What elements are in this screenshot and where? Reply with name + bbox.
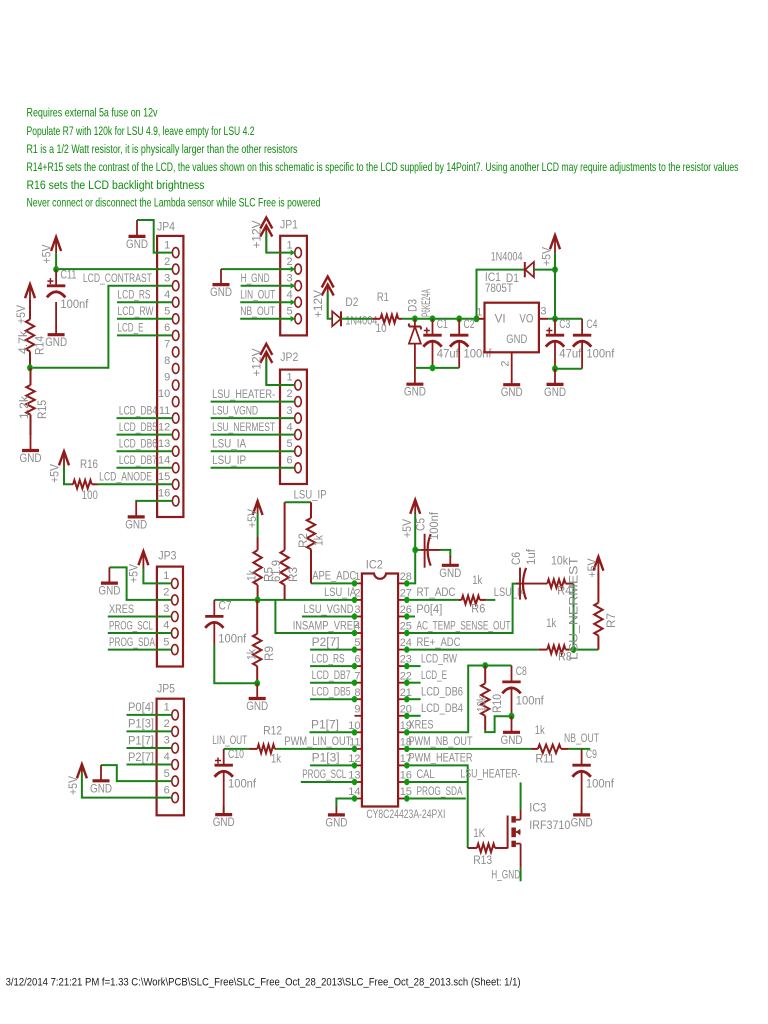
ground at JP3 pin2 bbox=[98, 567, 120, 597]
svg-text:13: 13 bbox=[158, 438, 170, 450]
junction IC2 pin11 bbox=[352, 746, 357, 752]
svg-text:5: 5 bbox=[163, 636, 169, 648]
net label PROG_SDA IC2r bbox=[417, 784, 464, 798]
svg-text:11: 11 bbox=[159, 405, 170, 417]
svg-text:GND: GND bbox=[544, 385, 566, 399]
svg-text:P0[4]: P0[4] bbox=[416, 602, 442, 616]
net label LCD_DB7 IC2 bbox=[312, 668, 351, 682]
capacitor C1 47uf bbox=[423, 317, 459, 368]
wire R4 down to LSU_NERMEST node bbox=[573, 584, 575, 650]
R13 name bbox=[473, 853, 492, 867]
net label LCD_RS bbox=[118, 288, 151, 302]
svg-text:R16 sets the LCD backlight bri: R16 sets the LCD backlight brightness bbox=[27, 178, 205, 192]
net label PROG_SCL IC2 bbox=[302, 767, 346, 781]
junction D1/+5V bbox=[552, 266, 558, 273]
svg-text:3: 3 bbox=[164, 735, 170, 747]
svg-text:GND: GND bbox=[501, 733, 523, 747]
svg-text:1k: 1k bbox=[472, 573, 483, 587]
svg-text:LSU_IP: LSU_IP bbox=[294, 488, 327, 502]
junction IC2 pin15 bbox=[404, 795, 409, 801]
svg-text:LCD_RW: LCD_RW bbox=[118, 304, 154, 318]
R12 value 1k bbox=[271, 751, 282, 765]
wire D1 to +5V junction bbox=[534, 269, 555, 271]
net label LSU_NERMEST bbox=[566, 556, 580, 660]
svg-text:VO: VO bbox=[519, 311, 533, 325]
footer plot info text bbox=[6, 977, 521, 989]
svg-text:LCD_DB7: LCD_DB7 bbox=[119, 453, 157, 467]
svg-text:1uf: 1uf bbox=[524, 548, 538, 565]
R4 value 10k bbox=[551, 554, 569, 568]
svg-text:R13: R13 bbox=[473, 853, 492, 867]
svg-text:1: 1 bbox=[164, 239, 170, 251]
svg-text:6: 6 bbox=[164, 784, 170, 796]
wire LCD_DB4 IC2r bbox=[407, 715, 421, 717]
svg-text:GND: GND bbox=[210, 285, 232, 299]
svg-text:LIN_OUT: LIN_OUT bbox=[240, 288, 275, 302]
junction IC2 pin25 bbox=[404, 630, 409, 636]
wire LCD_DB6 bbox=[117, 450, 173, 452]
junction IC2 pin28 bbox=[404, 580, 409, 586]
R9 name bbox=[262, 646, 276, 661]
arrow JP1 pin1 bbox=[291, 250, 295, 256]
svg-text:+5V: +5V bbox=[540, 246, 554, 266]
svg-text:3: 3 bbox=[164, 272, 170, 284]
net label NB_OUT right bbox=[564, 731, 599, 745]
wire LCD_E bbox=[117, 334, 172, 336]
svg-text:10k: 10k bbox=[475, 695, 489, 712]
wire P0[4] IC2r bbox=[407, 616, 415, 618]
net label P1[3] JP5 bbox=[128, 717, 154, 731]
svg-text:GND: GND bbox=[571, 815, 593, 829]
svg-text:1k: 1k bbox=[245, 648, 259, 660]
junction IC2 pin12 bbox=[352, 762, 357, 768]
svg-text:+5V: +5V bbox=[127, 563, 141, 583]
svg-text:LCD_DB7: LCD_DB7 bbox=[312, 668, 351, 682]
net label P2[7] JP5 bbox=[128, 750, 154, 764]
junction IC2 pin26 bbox=[404, 613, 409, 619]
svg-text:GND: GND bbox=[246, 699, 268, 713]
wire LSU_VGND JP2 bbox=[211, 417, 295, 419]
supply +5V at R14 bbox=[25, 284, 35, 300]
C6 value 1uf bbox=[524, 548, 538, 565]
net label CAL IC2r bbox=[417, 767, 435, 781]
wire +5V to C5 junction bbox=[414, 514, 416, 550]
svg-text:CY8C24423A-24PXI: CY8C24423A-24PXI bbox=[366, 807, 445, 821]
svg-text:P2[7]: P2[7] bbox=[312, 635, 340, 649]
wire RE+_ADC bbox=[407, 649, 539, 651]
voltage regulator IC1 7805T bbox=[476, 303, 548, 369]
svg-text:GND: GND bbox=[439, 566, 461, 580]
svg-text:LSU_VGND: LSU_VGND bbox=[304, 602, 354, 616]
resistor R3 61.9 bbox=[280, 502, 288, 600]
capacitor C7 100nf bbox=[205, 599, 247, 646]
supply +5V at R7 text bbox=[585, 558, 599, 578]
svg-text:LSU_IA: LSU_IA bbox=[212, 437, 247, 451]
net label PWM_NB_OUT bbox=[409, 734, 473, 748]
junction R10 top bbox=[482, 662, 488, 669]
svg-text:10: 10 bbox=[158, 388, 170, 400]
svg-text:5: 5 bbox=[286, 306, 292, 318]
svg-text:LSU_IA: LSU_IA bbox=[324, 585, 357, 599]
IC U2 CY8C24423A-24PXI body bbox=[348, 571, 412, 807]
ground below IC1 bbox=[501, 369, 523, 400]
wire P1[3] IC2 pin12 bbox=[310, 764, 354, 766]
capacitor C8 100nf bbox=[502, 664, 544, 716]
wire source to H_GND bbox=[520, 868, 522, 881]
junction IC2 pin13 bbox=[352, 779, 357, 785]
net label LCD_DB4 IC2r bbox=[421, 701, 463, 715]
supply +5V at C5 bbox=[410, 500, 420, 514]
net label PROG_SDA JP3 bbox=[109, 635, 156, 649]
svg-text:LCD_ANODE: LCD_ANODE bbox=[99, 470, 152, 484]
net label XRES JP3 bbox=[109, 602, 134, 616]
net label NB_OUT bbox=[240, 304, 275, 318]
wire P0[4] JP5 bbox=[127, 714, 172, 716]
junction IC2 pin7 bbox=[352, 680, 357, 686]
IC1 value 7805T bbox=[485, 281, 513, 295]
wire IC2 pin28 to +5V bbox=[407, 550, 415, 584]
wire +5V to JP5 pin6 bbox=[82, 773, 172, 798]
supply +5V at JP3 text bbox=[127, 563, 141, 583]
ground at IC2 pin14 bbox=[325, 807, 347, 829]
net label RT_ADC bbox=[417, 585, 456, 599]
svg-text:4: 4 bbox=[164, 289, 170, 301]
wire LCD_E IC2r bbox=[407, 682, 421, 684]
junction C3 bottom bbox=[552, 365, 558, 372]
supply +12V at JP2 text bbox=[249, 348, 263, 377]
D1 name bbox=[506, 271, 519, 285]
R1 name bbox=[377, 290, 389, 304]
svg-text:+5V: +5V bbox=[48, 463, 62, 483]
net label LSU_HEATER- bbox=[212, 387, 275, 401]
arrow JP1 pin5 bbox=[291, 316, 295, 322]
resistor R9 1k bbox=[253, 600, 261, 683]
resistor R16 100 bbox=[71, 480, 98, 488]
wire LSU_VGND IC2 pin3 bbox=[302, 616, 355, 618]
diode D2 1N4004 bbox=[332, 311, 341, 326]
svg-text:P6KE24A: P6KE24A bbox=[419, 289, 433, 317]
svg-text:1k: 1k bbox=[245, 569, 259, 581]
svg-text:16: 16 bbox=[158, 488, 170, 500]
svg-text:P1[3]: P1[3] bbox=[312, 751, 340, 765]
svg-text:6: 6 bbox=[164, 322, 170, 334]
svg-text:100nf: 100nf bbox=[60, 297, 89, 311]
net label H_GND bbox=[241, 271, 270, 285]
net label LCD_DB4 bbox=[119, 403, 157, 417]
R3 value 61.9 bbox=[269, 560, 283, 582]
svg-text:R15: R15 bbox=[35, 400, 49, 419]
svg-text:C6: C6 bbox=[509, 552, 523, 565]
svg-text:Populate R7 with 120k for LSU: Populate R7 with 120k for LSU 4.9, leave… bbox=[27, 124, 255, 138]
junction IC2 pin10 bbox=[352, 729, 357, 735]
wire LCD_RW bbox=[117, 318, 172, 320]
net label LIN_OUT left bbox=[212, 733, 247, 747]
net label P1[7] JP5 bbox=[128, 733, 154, 747]
svg-text:100nf: 100nf bbox=[427, 511, 441, 540]
ground at JP4 pin1 bbox=[126, 220, 148, 251]
svg-text:9: 9 bbox=[354, 703, 360, 715]
capacitor C6 1uf bbox=[516, 568, 547, 600]
svg-text:LCD_DB4: LCD_DB4 bbox=[119, 403, 157, 417]
svg-text:LCD_CONTRAST: LCD_CONTRAST bbox=[83, 271, 152, 285]
R2 name bbox=[296, 533, 310, 548]
arrow JP1 pin2 bbox=[291, 266, 295, 272]
svg-text:C10: C10 bbox=[228, 747, 244, 761]
ground below C3 bbox=[544, 369, 566, 399]
net label LCD_E IC2r bbox=[421, 668, 447, 682]
supply +12V at JP1 text bbox=[249, 220, 263, 249]
net label LCD_ANODE bbox=[99, 470, 152, 484]
junction IC2 pin27 bbox=[404, 597, 409, 603]
svg-text:LCD_RS: LCD_RS bbox=[118, 288, 151, 302]
svg-text:4: 4 bbox=[164, 751, 170, 763]
svg-text:R9: R9 bbox=[262, 646, 276, 661]
net label LCD_DB5 bbox=[119, 420, 157, 434]
capacitor C11 100nf bbox=[47, 268, 89, 312]
resistor R13 1K bbox=[468, 844, 508, 852]
svg-text:LSU_HEATER-: LSU_HEATER- bbox=[212, 387, 275, 401]
wire +5V to JP4 pin2 bbox=[56, 253, 172, 269]
wire IC2 pin14 to GND bbox=[336, 799, 354, 808]
C6 name bbox=[509, 552, 523, 565]
R3 name bbox=[286, 567, 300, 582]
D1 value 1N4004 bbox=[491, 250, 523, 264]
supply +12V at JP1 bbox=[260, 218, 272, 253]
svg-text:100nf: 100nf bbox=[218, 631, 247, 645]
capacitor C2 100nf bbox=[450, 317, 492, 368]
svg-text:+5V: +5V bbox=[40, 244, 54, 264]
junction C8 bottom bbox=[509, 713, 515, 720]
wire rail up to D1 bbox=[477, 270, 525, 319]
wire LSU_IA JP2 bbox=[211, 450, 295, 452]
svg-text:61.9: 61.9 bbox=[269, 560, 283, 582]
svg-text:LSU_VGND: LSU_VGND bbox=[212, 403, 258, 417]
junction IC2 pin21 bbox=[404, 696, 409, 702]
wire PWM_NB_OUT bbox=[407, 748, 532, 750]
svg-text:+12V: +12V bbox=[249, 348, 263, 377]
wire LSU_IP JP2 bbox=[211, 467, 295, 469]
svg-text:3/12/2014 7:21:21 PM f=1.33: 3/12/2014 7:21:21 PM f=1.33 C:\Work\PCB\… bbox=[6, 977, 521, 989]
svg-text:3: 3 bbox=[286, 272, 292, 284]
svg-text:D2: D2 bbox=[345, 295, 358, 309]
svg-text:2: 2 bbox=[164, 718, 170, 730]
svg-text:4.7k: 4.7k bbox=[16, 330, 30, 354]
wire XRES net bbox=[407, 666, 485, 733]
supply +5V at R16 text bbox=[48, 463, 62, 483]
wire LCD_RW IC2r bbox=[407, 665, 421, 667]
supply +5V at C11 text bbox=[40, 244, 54, 264]
wire LSU_IA row bbox=[214, 599, 354, 601]
wire XRES JP3 bbox=[108, 616, 171, 618]
wire LSU_IP R3 R2 bbox=[285, 501, 311, 503]
svg-text:3: 3 bbox=[540, 306, 546, 318]
svg-text:GND: GND bbox=[501, 385, 523, 399]
R2 value 1k bbox=[312, 534, 326, 546]
svg-text:NB_OUT: NB_OUT bbox=[240, 304, 275, 318]
wire P2[7] IC2 pin5 bbox=[310, 649, 354, 651]
R7 name bbox=[604, 613, 618, 628]
svg-text:RT_ADC: RT_ADC bbox=[417, 585, 456, 599]
svg-text:P0[4]: P0[4] bbox=[128, 700, 154, 714]
wire LSU_NERMEST JP2 bbox=[211, 434, 295, 436]
svg-text:GND: GND bbox=[45, 335, 67, 349]
resistor R11 1k bbox=[532, 745, 569, 754]
svg-text:LCD_DB4: LCD_DB4 bbox=[421, 701, 463, 715]
capacitor C5 100nf bbox=[415, 534, 440, 568]
svg-text:100nf: 100nf bbox=[464, 347, 493, 361]
wire LCD_CONTRAST bbox=[33, 286, 172, 368]
resistor R12 1k bbox=[250, 745, 277, 754]
net label PROG_SCL JP3 bbox=[109, 618, 153, 632]
wire rail R1 to IC1 bbox=[402, 318, 479, 320]
svg-text:PROG_SCL: PROG_SCL bbox=[302, 767, 346, 781]
R14 value 4.7k bbox=[16, 330, 30, 354]
svg-text:P1[7]: P1[7] bbox=[128, 733, 154, 747]
svg-text:12: 12 bbox=[158, 421, 170, 433]
svg-text:H_GND: H_GND bbox=[491, 867, 520, 881]
svg-text:LCD_RW: LCD_RW bbox=[421, 651, 457, 665]
wire LIN_OUT to R12 bbox=[224, 748, 250, 750]
net label LCD_RW IC2r bbox=[421, 651, 457, 665]
svg-text:Requires external 5a fuse on 1: Requires external 5a fuse on 12v bbox=[27, 106, 159, 120]
arrow JP1 pin4 bbox=[291, 299, 295, 305]
svg-text:AC_TEMP_SENSE_OUT: AC_TEMP_SENSE_OUT bbox=[417, 618, 511, 632]
svg-text:LSU_NERMEST: LSU_NERMEST bbox=[566, 556, 580, 660]
IC1 name bbox=[485, 270, 501, 284]
svg-text:9: 9 bbox=[164, 372, 170, 384]
svg-text:2: 2 bbox=[500, 360, 512, 366]
connector JP5 bbox=[157, 681, 184, 815]
ground at JP5 pin5 bbox=[90, 765, 112, 795]
wire +5V to R5 bbox=[257, 514, 259, 538]
svg-text:PWM_NB_OUT: PWM_NB_OUT bbox=[409, 734, 473, 748]
IC2 value CY8C24423A-24PXI bbox=[366, 807, 445, 821]
supply +5V at R7 bbox=[593, 557, 603, 572]
net label LSU_NERMEST bbox=[212, 420, 275, 434]
junction C1 bottom bbox=[430, 365, 436, 372]
wire P1[3] JP5 bbox=[127, 730, 172, 732]
svg-text:IC2: IC2 bbox=[366, 558, 383, 572]
svg-text:XRES: XRES bbox=[409, 718, 434, 732]
wire C3 C4 bottoms bbox=[555, 368, 582, 370]
junction IC2 pin18 bbox=[404, 746, 409, 752]
svg-text:LCD_DB5: LCD_DB5 bbox=[119, 420, 157, 434]
svg-text:R11: R11 bbox=[535, 752, 554, 766]
svg-text:JP4: JP4 bbox=[157, 220, 175, 234]
junction IC2 pin24 bbox=[404, 646, 409, 652]
svg-text:LSU_IA: LSU_IA bbox=[494, 585, 527, 599]
svg-text:3: 3 bbox=[286, 405, 292, 417]
wire +5V to R16 bbox=[64, 466, 71, 484]
svg-text:47uf: 47uf bbox=[559, 347, 582, 361]
svg-text:7: 7 bbox=[164, 339, 170, 351]
svg-text:2: 2 bbox=[164, 256, 170, 268]
junction IC2 pin1 bbox=[352, 580, 357, 586]
junction IC2 pin22 bbox=[404, 680, 409, 686]
svg-text:5: 5 bbox=[164, 306, 170, 318]
svg-text:7805T: 7805T bbox=[485, 281, 513, 295]
junction rail to D1 bbox=[474, 315, 480, 322]
net label RE+_ADC bbox=[417, 635, 461, 649]
supply +5V at JP5 text bbox=[66, 775, 80, 795]
svg-text:R16: R16 bbox=[80, 457, 98, 471]
svg-text:C2: C2 bbox=[464, 317, 475, 331]
R1 value 10 bbox=[376, 321, 387, 335]
net label LSU_VGND IC2 bbox=[304, 602, 354, 616]
svg-text:1k: 1k bbox=[546, 616, 557, 630]
svg-text:8: 8 bbox=[164, 355, 170, 367]
wire JP4 pin1 to GND bbox=[137, 220, 172, 253]
svg-text:4: 4 bbox=[286, 421, 292, 433]
svg-text:R14+R15 sets the contrast of t: R14+R15 sets the contrast of the LCD, th… bbox=[27, 160, 739, 174]
supply +5V at JP3 bbox=[138, 551, 148, 567]
R12 name bbox=[263, 723, 282, 737]
svg-text:47uf: 47uf bbox=[437, 347, 460, 361]
svg-text:R10: R10 bbox=[490, 694, 504, 713]
svg-text:C1: C1 bbox=[437, 317, 448, 331]
junction IC2 pin3 bbox=[352, 613, 357, 619]
net label LCD_DB6 bbox=[119, 437, 157, 451]
junction R14/R15/LCD_CONTRAST bbox=[27, 364, 33, 371]
wire LCD_DB5 IC2 pin8 bbox=[310, 698, 354, 700]
junction C11/+5V bbox=[53, 266, 59, 273]
junction C1 top bbox=[430, 315, 436, 322]
resistor R4 10k bbox=[547, 579, 573, 587]
svg-text:PROG_SDA: PROG_SDA bbox=[417, 784, 464, 798]
wire JP3 pin2 to GND bbox=[109, 567, 171, 600]
net label PWM_LIN_OUT bbox=[284, 734, 351, 748]
svg-text:1.2k: 1.2k bbox=[17, 395, 31, 419]
IC1 pin2 label bbox=[500, 360, 512, 366]
diode D1 1N4004 bbox=[525, 262, 534, 277]
R11 name bbox=[535, 752, 554, 766]
svg-text:R3: R3 bbox=[286, 567, 300, 582]
wire +12V to D2 bbox=[328, 292, 333, 319]
junction IC2 pin16 bbox=[404, 779, 409, 785]
svg-text:R1: R1 bbox=[377, 290, 389, 304]
wire C1 C2 bottoms bbox=[415, 367, 459, 369]
wire LCD_DB6 IC2r bbox=[407, 698, 421, 700]
svg-text:R1 is a 1/2 Watt resistor, it: R1 is a 1/2 Watt resistor, it is physica… bbox=[27, 142, 298, 156]
net label P2[7] IC2 bbox=[312, 635, 340, 649]
wire LCD_RS IC2 pin6 bbox=[310, 665, 354, 667]
svg-text:+5V: +5V bbox=[585, 558, 599, 578]
svg-text:PROG_SCL: PROG_SCL bbox=[109, 618, 153, 632]
svg-text:CAL: CAL bbox=[417, 767, 435, 781]
net label H_GND at IC3 bbox=[491, 867, 520, 881]
svg-text:100nf: 100nf bbox=[228, 777, 257, 791]
net label LSU_IA bbox=[212, 437, 247, 451]
junction IC2 pin5 bbox=[352, 646, 357, 652]
svg-text:C3: C3 bbox=[559, 317, 570, 331]
wire R10 bottom step bbox=[485, 716, 511, 732]
wire R11 to NB_OUT bbox=[569, 748, 590, 750]
wire APE_ADC bbox=[311, 582, 355, 584]
net label LSU_HEATER- at IC3 bbox=[460, 767, 520, 781]
svg-text:C8: C8 bbox=[516, 664, 527, 678]
ground at C5 bbox=[439, 556, 461, 580]
svg-text:2: 2 bbox=[286, 256, 292, 268]
wire LCD_DB7 bbox=[117, 467, 173, 469]
svg-text:C9: C9 bbox=[586, 747, 597, 761]
svg-text:1N4004: 1N4004 bbox=[491, 250, 523, 264]
wire C7 bottom to R9 bottom bbox=[214, 645, 257, 683]
svg-text:D3: D3 bbox=[406, 299, 420, 312]
svg-text:PWM_LIN_OUT: PWM_LIN_OUT bbox=[284, 734, 351, 748]
capacitor C9 100nf bbox=[572, 747, 614, 815]
wire H_GND bbox=[241, 285, 294, 287]
supply +5V at R16 bbox=[59, 451, 69, 466]
